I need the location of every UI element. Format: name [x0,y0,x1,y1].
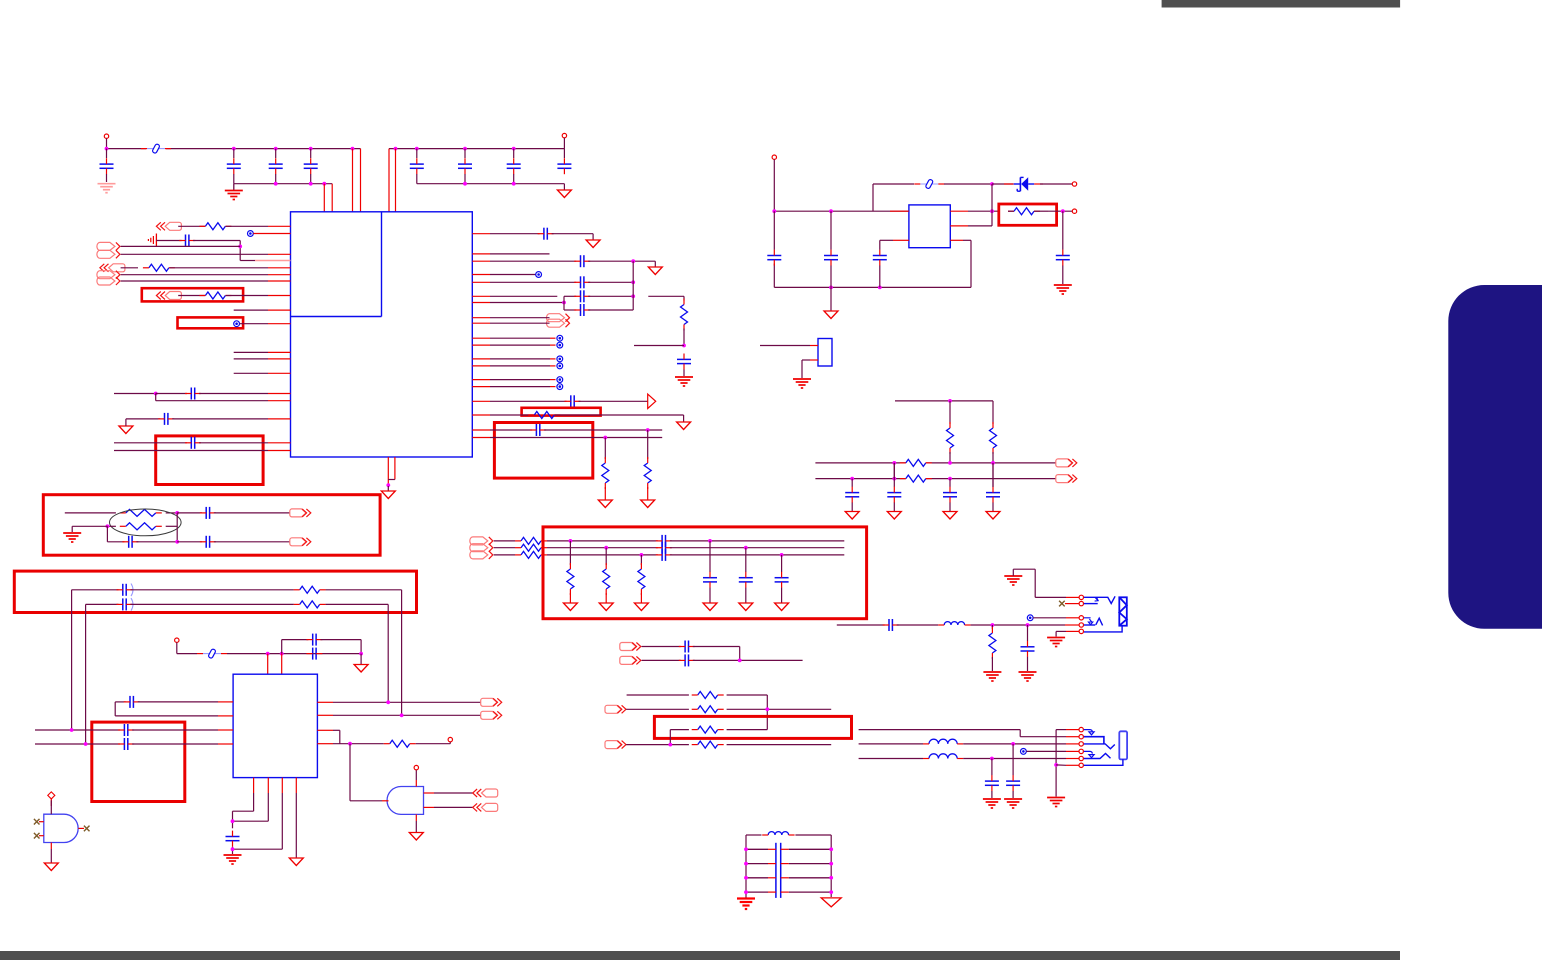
capacitor C16 [574,290,590,302]
left rail [745,835,747,897]
wire [172,418,268,420]
capacitor C53 [746,863,831,865]
ground [381,486,395,499]
wire [992,503,994,512]
wire [490,344,550,346]
capacitor C20 [677,354,691,370]
pin [472,233,490,235]
emi bead E5 [557,342,563,348]
wire [547,554,658,556]
wire [851,503,853,512]
junction [829,286,833,290]
junction [604,546,608,550]
wire [642,659,681,661]
wire [781,555,783,572]
flag connector [648,394,656,408]
wire [490,253,550,255]
emi bead E11 [1021,749,1027,755]
ground [739,603,753,611]
wire [490,317,550,319]
ground [1047,638,1065,647]
zener diode D1 [1004,177,1043,191]
pin [472,322,490,324]
pin [810,359,818,361]
resistor R8 [1008,208,1040,215]
wire [693,659,803,661]
wire [709,588,711,603]
junction [948,461,952,465]
jack J2 pin [1079,727,1083,731]
capacitor C2 [227,158,241,174]
power rail net VDD1 [107,148,361,150]
ground (solid) [737,897,755,909]
wire [991,625,993,629]
wire [640,555,642,565]
junction [948,477,952,481]
jack J2 pin [1079,742,1083,746]
wire to U1 pin [331,184,333,212]
junction [512,182,516,186]
pin [268,267,291,269]
trunk [1055,730,1057,797]
junction [990,182,994,186]
wire [107,525,116,527]
pin [415,814,417,821]
pin [1066,764,1079,766]
ground (highlighted) [98,184,116,193]
line1 [72,589,119,591]
no-connect [34,833,40,839]
wire [1062,266,1064,285]
blue side tab [1448,285,1542,629]
junction [463,147,467,151]
wire [132,743,218,745]
wire [563,149,565,158]
capacitor C52 [746,848,831,850]
resistor R25 [692,706,724,713]
wire [709,541,711,572]
power rail net VDD2 [389,148,564,150]
wire [605,593,607,603]
capacitor C50 [1006,775,1020,791]
wire [745,588,747,603]
pin (highlighted) [255,260,291,262]
highlight box 4 [92,722,185,801]
emi bead E4 [557,335,563,341]
wire [50,849,52,863]
capacitor C18 [565,395,581,407]
junction [780,553,784,557]
junction [765,707,769,711]
capacitor C19 [530,424,546,436]
highlight box 6 [654,716,851,738]
fuse FB1 [141,144,171,154]
wire [893,463,895,487]
ground [983,799,1001,808]
ground [1019,672,1037,681]
pin [472,386,490,388]
wire [879,247,881,287]
resistor R10 [990,422,997,454]
wire [176,513,178,542]
wire [830,266,832,312]
junction [348,742,352,746]
capacitor C45 [775,572,789,588]
highlight box 9 [142,288,243,301]
capacitor C36 [124,696,140,708]
crystal Y1 [818,339,832,367]
pin [472,260,490,262]
wire [193,241,255,261]
wire [647,487,649,500]
line [494,554,515,556]
pin [1065,603,1079,605]
highlight box 2 [43,495,380,556]
terminal P6 [175,638,179,642]
power terminal P1 [104,134,108,138]
junction [351,147,355,151]
ground [63,533,81,542]
output port J-C [547,314,570,328]
wire [547,540,658,542]
wire to U1 pin [323,184,325,212]
junction [175,511,179,515]
wire [166,512,178,514]
highlight box 11 [156,436,263,485]
ground [887,512,901,520]
wire [490,437,662,439]
pin [39,821,44,823]
wire [1012,791,1014,798]
wire [648,296,684,300]
wire [490,295,557,297]
pin [950,225,968,227]
capacitor C43 [703,572,717,588]
output port [481,698,502,706]
jack J1 pin [1079,629,1083,633]
ground [1004,799,1022,808]
pin [472,414,490,416]
wire [490,429,532,431]
ground [986,512,1000,520]
ground [354,665,368,673]
wire [156,394,268,401]
capacitor C13 [538,228,554,240]
junction [640,553,644,557]
wire [944,183,992,185]
wire [121,267,138,269]
resistor R2 [143,264,175,271]
junction [386,483,390,487]
bottom gray bar [0,951,1400,960]
junction [562,301,566,305]
highlight box 3 [14,571,416,612]
wire [991,657,993,671]
wire to U1 pin [360,149,362,212]
wire [604,487,606,500]
capacitor C48 [883,619,899,631]
wire [579,400,648,402]
junction [415,147,419,151]
wire [233,793,269,821]
wire [760,345,810,347]
pin [1066,617,1079,619]
resistor R21 [567,563,574,595]
wire [320,640,361,654]
pin [810,345,818,347]
wire [991,184,993,226]
junction [631,259,635,263]
wire [132,729,218,731]
wire [569,541,571,565]
wire to U1 pin [395,149,397,212]
wire [949,503,951,512]
jack J2 pin [1079,763,1083,767]
capacitor C15 [574,276,590,288]
capacitor C37 [118,724,134,736]
wire [1026,750,1066,752]
junction [512,147,516,151]
wire [897,624,939,626]
wire [490,400,567,402]
wire [131,603,294,605]
wire [1040,183,1072,185]
wire [949,401,951,424]
capacitor C42 [656,549,672,561]
pin [472,379,490,381]
input port [473,803,498,811]
junction [850,477,854,481]
pin [893,239,909,241]
junction [569,539,573,543]
wire [490,358,550,360]
no-connect [84,826,90,832]
line2 [815,478,1056,480]
wire [670,554,845,556]
junction [463,182,467,186]
wire [106,174,108,182]
wire [282,640,309,654]
wire [544,429,662,431]
wire [949,479,951,487]
pin [424,806,435,808]
ground [598,500,612,508]
junction [238,245,242,249]
resistor R4 [528,412,560,419]
wire [669,730,671,745]
wire [114,450,268,452]
wire [234,351,268,353]
wire [727,695,768,730]
pin [394,457,396,480]
pin [1066,596,1079,598]
gnd rail [234,174,332,184]
wire [563,138,565,149]
pin [472,253,490,255]
wire [170,267,269,269]
pin [472,295,490,297]
highlight box 7 [522,408,601,416]
jack J2 pin [1079,749,1083,753]
wire [156,393,187,395]
ground [599,603,613,611]
emi bead E7 [557,363,563,369]
wire [992,463,994,487]
line1 [815,462,1056,464]
pin [1066,743,1079,745]
capacitor C10 [185,388,201,400]
junction [154,392,158,396]
junction [1054,763,1058,767]
input port [156,222,181,230]
wire [434,806,473,808]
pin [317,701,333,703]
pin [472,365,490,367]
resistor R23 [638,563,645,595]
capacitor C38 [118,738,134,750]
junction [1061,209,1065,213]
emi bead E8 [557,377,563,383]
output port [290,509,311,517]
emi bead E1 [248,231,254,237]
wire [795,834,831,836]
wire [588,309,633,311]
wire [416,149,418,158]
junction [400,713,404,717]
capacitor C51 [985,775,999,791]
resistor R14 [120,523,162,530]
junction [266,652,270,656]
and gate U5 [44,814,78,842]
input port [473,789,498,797]
pin [890,210,909,212]
line [494,547,515,549]
wire [851,479,853,487]
resistor R19 [515,544,547,551]
pin [424,792,435,794]
pin [472,429,490,431]
emi bead E10 [1027,615,1033,621]
wire [1055,631,1057,636]
pin [550,344,556,346]
ground [1054,285,1072,294]
fuse F2 [914,179,944,189]
junction [829,209,833,213]
ground [821,898,841,907]
pin [472,344,490,346]
pin [218,729,233,731]
capacitor C3 [269,158,283,174]
wire [214,541,290,543]
pin [268,323,291,325]
wire [802,360,810,378]
ground [289,858,303,866]
emi bead E9 [557,384,563,390]
junction [386,700,390,704]
wire [745,548,747,572]
wire [1012,744,1014,776]
ground [641,500,655,508]
wire [114,442,187,444]
capacitor C7 [507,158,521,174]
capacitor C9 [179,235,195,247]
wire [490,414,534,416]
rowA [627,694,689,696]
pin [268,442,291,444]
wire [107,526,124,542]
wire [226,295,268,297]
rowD [626,744,689,746]
highlight box 5 [543,527,867,619]
resistor R18 [515,537,547,544]
pin [1066,736,1079,738]
inductor L2 [923,739,963,744]
pin [268,253,291,255]
junction [175,540,179,544]
wire [727,729,768,731]
emi bead E2 [234,321,240,327]
clock IC U3 [233,674,317,777]
output port [481,711,502,719]
capacitor C30 [122,536,138,548]
jack J1 pin [1079,623,1083,627]
wire [415,821,417,832]
pin [317,729,333,731]
capacitor C14 [574,255,590,267]
pin [472,302,490,304]
power terminal P2 [562,133,566,137]
pin [387,457,389,486]
terminal P3 [772,155,776,159]
inductor L4 [762,832,794,835]
wire [1062,211,1064,250]
pin [382,800,389,802]
wire [683,329,685,346]
pin [1066,758,1079,760]
wire [963,758,1066,760]
wire [647,430,649,459]
junction [990,757,994,761]
cap curl [131,584,133,597]
pin [472,400,490,402]
resistor R24 [692,692,724,699]
output port [1056,475,1077,483]
wire [156,240,181,242]
ground [563,603,577,611]
junction [744,546,748,550]
junction [70,728,74,732]
capacitor C22 [824,250,838,266]
wire [893,463,895,479]
and gate U4 [387,787,423,815]
wire [234,309,268,311]
wire [564,309,576,311]
pin [472,281,490,283]
wire [640,593,642,603]
pin [1066,750,1079,752]
junction [231,819,235,823]
top gray bar [1162,0,1401,8]
lineA [859,730,1066,737]
junction [744,890,748,894]
terminal P7 [448,737,452,741]
wire [178,295,205,297]
regulator U2 [909,205,950,248]
capacitor C8 [557,158,571,174]
wire [873,184,914,211]
resistor R7 [681,299,688,331]
junction [738,659,742,663]
